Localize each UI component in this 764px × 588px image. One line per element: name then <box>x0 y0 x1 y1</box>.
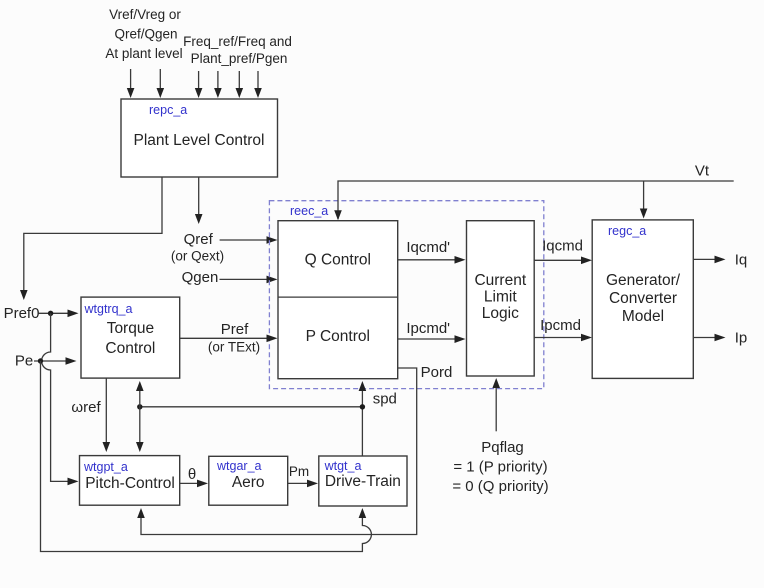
svg-text:Vt: Vt <box>695 163 710 180</box>
label Vref/Vreg or Qref/Qgen At plant level <box>105 7 182 61</box>
input arrow 2 into Plant Level Control <box>157 69 165 98</box>
svg-text:Ipcmd: Ipcmd <box>540 317 581 334</box>
svg-text:= 0 (Q priority): = 0 (Q priority) <box>452 478 548 495</box>
svg-text:Iq: Iq <box>735 252 748 269</box>
output arrow Ip <box>693 330 747 347</box>
svg-text:Vref/Vreg or: Vref/Vreg or <box>109 7 181 22</box>
svg-text:(or Qext): (or Qext) <box>171 249 224 264</box>
svg-text:Pqflag: Pqflag <box>481 439 524 456</box>
svg-text:Qref/Qgen: Qref/Qgen <box>114 27 177 42</box>
wire Qgen into Q Control <box>220 276 278 284</box>
wire theta from Pitch-Control to Aero <box>180 466 208 487</box>
svg-text:Aero: Aero <box>232 474 265 491</box>
label Pe <box>15 353 33 370</box>
block repc_a Plant Level Control <box>121 99 278 177</box>
label Pqflag = 1 (P priority) = 0 (Q priority) <box>452 439 548 495</box>
input arrow 3 into Plant Level Control <box>195 71 203 98</box>
svg-text:Pord: Pord <box>421 364 453 381</box>
label Pref0 <box>4 305 40 322</box>
svg-text:Ipcmd': Ipcmd' <box>406 320 450 337</box>
block wtgtrq_a Torque Control <box>81 297 180 378</box>
svg-text:wtgt_a: wtgt_a <box>324 459 362 473</box>
svg-text:Torque: Torque <box>107 320 154 337</box>
wire Qref into Q Control <box>220 236 278 244</box>
block regc_a Generator/Converter Model <box>592 220 693 379</box>
input arrow 5 into Plant Level Control <box>236 71 244 98</box>
svg-text:regc_a: regc_a <box>608 224 646 238</box>
wire Pm from Aero to Drive-Train <box>288 464 318 487</box>
net Vt <box>334 163 734 221</box>
svg-text:= 1 (P priority): = 1 (P priority) <box>453 459 547 476</box>
svg-text:ωref: ωref <box>71 399 101 416</box>
svg-text:Model: Model <box>622 308 664 325</box>
svg-text:P Control: P Control <box>306 328 370 345</box>
wire Pe feedback down to Drive-Train with hop <box>41 361 372 552</box>
wire Plant Level Control to Qref <box>195 177 203 224</box>
label Freq_ref/Freq and Plant_pref/Pgen <box>183 34 292 66</box>
dashed module boundary reec_a <box>269 201 543 389</box>
block wtgt_a Drive-Train <box>319 456 407 506</box>
svg-text:Q Control: Q Control <box>305 251 371 268</box>
svg-text:Iqcmd': Iqcmd' <box>406 239 450 256</box>
svg-text:reec_a: reec_a <box>290 204 328 218</box>
svg-text:Generator/: Generator/ <box>606 272 681 289</box>
wire Ipcmd from Current Limit Logic to Generator <box>534 317 592 341</box>
net spd from Drive-Train to P Control, Torque Control and Pitch-Control <box>136 381 397 456</box>
svg-text:Pref0: Pref0 <box>4 305 40 322</box>
svg-text:(or TExt): (or TExt) <box>208 340 260 355</box>
svg-text:θ: θ <box>188 466 196 483</box>
svg-text:Pitch-Control: Pitch-Control <box>85 475 175 492</box>
svg-text:Freq_ref/Freq and: Freq_ref/Freq and <box>183 34 292 49</box>
wire Iqcmd' from Q Control to Current Limit Logic <box>398 239 466 264</box>
label Qref (or Qext) <box>171 231 224 264</box>
label Qgen <box>182 269 219 286</box>
svg-text:Qref: Qref <box>184 231 214 248</box>
svg-text:Drive-Train: Drive-Train <box>325 473 401 490</box>
svg-text:Ip: Ip <box>735 330 748 347</box>
svg-text:Pref: Pref <box>221 321 249 338</box>
svg-text:repc_a: repc_a <box>149 103 187 117</box>
block Current Limit Logic <box>467 221 535 376</box>
svg-text:spd: spd <box>373 391 397 408</box>
net Pord from P Control to Pitch-Control <box>137 364 452 535</box>
input arrow 1 into Plant Level Control <box>127 69 135 98</box>
wire Plant Level Control to Pref0 <box>20 177 162 300</box>
svg-text:Control: Control <box>105 340 155 357</box>
wire Iqcmd from Current Limit Logic to Generator <box>534 238 592 265</box>
wire Pqflag into Current Limit Logic <box>492 378 500 431</box>
svg-text:At plant level: At plant level <box>105 46 182 61</box>
wire Pref from Torque Control to P Control <box>180 321 278 355</box>
input arrow 6 into Plant Level Control <box>254 71 262 98</box>
svg-text:Qgen: Qgen <box>182 269 219 286</box>
svg-text:wtgar_a: wtgar_a <box>216 459 262 473</box>
wire Pref0 into Torque Control with junction <box>39 310 79 318</box>
wire wref from Torque Control to Pitch-Control <box>71 378 110 452</box>
block wtgar_a Aero <box>209 456 288 505</box>
svg-text:Pe: Pe <box>15 353 33 370</box>
svg-text:wtgpt_a: wtgpt_a <box>83 460 128 474</box>
block Q Control / P Control <box>278 221 398 379</box>
svg-text:Pm: Pm <box>289 464 309 479</box>
svg-text:Limit: Limit <box>484 289 517 306</box>
svg-text:Current: Current <box>474 272 526 289</box>
svg-text:Plant_pref/Pgen: Plant_pref/Pgen <box>191 51 288 66</box>
output arrow Iq <box>693 252 747 269</box>
svg-text:Converter: Converter <box>609 290 677 307</box>
wire Ipcmd' from P Control to Current Limit Logic <box>398 320 466 343</box>
svg-text:Logic: Logic <box>482 305 519 322</box>
block wtgpt_a Pitch-Control <box>80 456 180 506</box>
svg-text:Plant Level Control: Plant Level Control <box>134 132 265 149</box>
wire Pref0 down to Pitch-Control with hop over Pe <box>42 313 79 485</box>
svg-text:Iqcmd: Iqcmd <box>542 238 583 255</box>
svg-text:wtgtrq_a: wtgtrq_a <box>84 302 133 316</box>
wire Pe into Torque Control with junction <box>34 357 77 365</box>
input arrow 4 into Plant Level Control <box>214 71 222 98</box>
